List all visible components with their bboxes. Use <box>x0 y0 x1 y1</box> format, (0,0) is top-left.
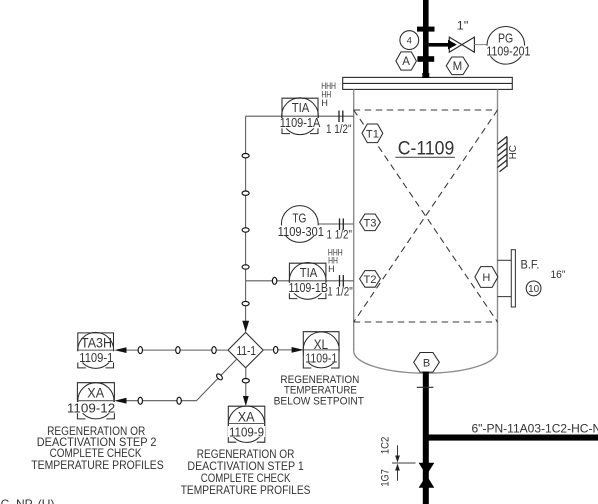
hexagon M <box>446 57 468 75</box>
valve PG (gate valve outline) <box>449 37 474 52</box>
alarm labels HHH HH H (1A) <box>321 81 336 108</box>
svg-text:1109-9: 1109-9 <box>229 424 264 439</box>
spec break dimension <box>392 445 416 480</box>
svg-text:XA: XA <box>238 410 255 425</box>
top pipe (thick) <box>423 0 429 78</box>
annunciator bubble TA3H 1109-1 <box>78 333 114 368</box>
instrument bubble TIA 1109-1A (square+circle) <box>282 98 318 133</box>
signal line diamond to XL <box>263 349 292 351</box>
svg-text:T3: T3 <box>364 217 377 229</box>
svg-text:TEMPERATURE PROFILES: TEMPERATURE PROFILES <box>31 460 164 472</box>
spec tick on bottom pipe <box>417 386 434 388</box>
svg-text:REGENERATION OR: REGENERATION OR <box>197 449 295 461</box>
flow arrow into valve <box>448 40 457 50</box>
svg-text:T1: T1 <box>366 128 379 140</box>
instrument bubble TG 1109-301 <box>281 206 318 243</box>
signal markers on vertical trunk <box>242 154 277 306</box>
HC insulation hatch <box>498 136 508 171</box>
svg-text:COMPLETE CHECK: COMPLETE CHECK <box>201 473 291 485</box>
alarm labels HHH HH H (1B) <box>328 247 343 274</box>
marker on TIA-1B branch <box>272 277 276 284</box>
svg-text:PG: PG <box>498 31 513 46</box>
signal line diamond diagonal to XA 1109-12 <box>126 359 237 401</box>
manway nozzle lines (H) <box>498 260 512 296</box>
annunciator bubble XA 1109-9 <box>228 406 264 442</box>
svg-text:TIA: TIA <box>292 100 310 115</box>
nozzle hexagon T1 <box>362 124 383 143</box>
svg-text:6"-PN-11A03-1C2-HC-NI: 6"-PN-11A03-1C2-HC-NI <box>472 421 598 435</box>
note text step 2 <box>31 426 164 472</box>
svg-text:1C2: 1C2 <box>380 437 392 455</box>
svg-text:H: H <box>328 264 335 274</box>
svg-text:1 1/2": 1 1/2" <box>327 286 353 298</box>
svg-text:10: 10 <box>528 284 539 295</box>
svg-text:COMPLETE CHECK: COMPLETE CHECK <box>50 448 142 460</box>
svg-text:TA3H: TA3H <box>81 336 112 351</box>
nozzle hexagon B <box>414 353 440 373</box>
note text below XL <box>274 374 365 408</box>
note circle 4 <box>400 31 419 50</box>
svg-text:BELOW SETPOINT: BELOW SETPOINT <box>274 396 365 408</box>
svg-text:1 1/2": 1 1/2" <box>326 124 352 136</box>
annunciator bubble XL 1109-1 <box>303 332 339 368</box>
svg-text:4: 4 <box>407 36 412 47</box>
svg-text:1": 1" <box>457 19 469 33</box>
blind flange rect <box>511 250 515 307</box>
interlock diamond 11-1 <box>228 332 263 367</box>
bottom gate valve (closed, filled) <box>419 463 435 476</box>
svg-text:1109-301: 1109-301 <box>278 225 324 239</box>
nozzle hexagon T2 <box>360 271 381 288</box>
svg-text:1 1/2": 1 1/2" <box>327 230 353 242</box>
vessel internal diagonal dashed X <box>354 110 498 322</box>
svg-text:HC: HC <box>508 145 519 159</box>
svg-text:1109-1: 1109-1 <box>79 350 113 365</box>
nozzle line to TIA-1109-1B <box>246 280 354 282</box>
svg-text:H: H <box>482 272 490 284</box>
svg-text:HC, NP, (U): HC, NP, (U) <box>0 497 54 504</box>
vessel internal bed bottom dashed line <box>354 321 498 323</box>
svg-text:B.F.: B.F. <box>521 259 540 271</box>
vessel C-1109 top flange <box>343 77 513 89</box>
svg-text:1109-1A: 1109-1A <box>280 116 321 130</box>
svg-text:DEACTIVATION STEP 1: DEACTIVATION STEP 1 <box>187 461 303 473</box>
pipe stub at vessel flange <box>422 73 429 78</box>
flange bar upper <box>417 27 435 32</box>
instrument bubble TIA 1109-1B (square+circle) <box>289 263 326 298</box>
svg-text:B: B <box>423 357 430 369</box>
svg-text:1G7: 1G7 <box>380 469 392 487</box>
svg-text:1109-201: 1109-201 <box>486 45 530 59</box>
capillary flange pair T2 <box>340 275 344 287</box>
capillary flange pair T1 <box>339 111 343 123</box>
signal line diamond down to XA 1109-9 <box>245 368 247 397</box>
instrument bubble PG 1109-201 <box>487 27 525 65</box>
svg-text:T2: T2 <box>364 274 377 286</box>
svg-text:A: A <box>402 56 410 68</box>
svg-text:1109-1B: 1109-1B <box>288 281 328 295</box>
svg-text:TG: TG <box>292 210 306 225</box>
nozzle hexagon T3 <box>360 214 381 231</box>
bottom tee header (thick) <box>426 435 598 441</box>
vessel internal bed top dashed line <box>354 110 498 322</box>
nozzle line to TIA-1109-1A <box>246 115 354 117</box>
svg-text:TIA: TIA <box>300 265 318 280</box>
hexagon A <box>396 52 417 70</box>
note text step 1 <box>181 449 311 497</box>
nozzle line to TG-1109-301 <box>318 223 354 225</box>
nozzle hexagon H <box>475 267 498 288</box>
signal line diamond to TAH <box>126 349 228 351</box>
capillary flange pair T3 <box>340 218 344 230</box>
arrow into interlock diamond <box>242 321 249 332</box>
tee to PG valve (thick) <box>429 43 449 47</box>
svg-text:TEMPERATURE PROFILES: TEMPERATURE PROFILES <box>181 485 311 497</box>
svg-text:11-1: 11-1 <box>237 344 257 358</box>
signal line valve to PG <box>474 44 487 46</box>
vessel bottom head <box>354 351 498 373</box>
vessel shell walls <box>354 89 498 373</box>
svg-text:1109-12: 1109-12 <box>67 400 115 415</box>
svg-text:16": 16" <box>551 269 566 281</box>
svg-text:XA: XA <box>87 385 104 400</box>
flange bar lower <box>417 56 434 62</box>
note circle 10 <box>526 281 541 296</box>
svg-text:M: M <box>453 61 463 73</box>
vessel tag C-1109 <box>395 139 455 160</box>
svg-text:H: H <box>321 98 328 108</box>
signal trunk vertical line <box>245 116 247 331</box>
annunciator bubble XA 1109-12 <box>77 383 114 419</box>
bottom pipe from B (thick) <box>423 372 429 504</box>
svg-text:REGENERATION OR: REGENERATION OR <box>47 426 145 438</box>
svg-text:1109-1: 1109-1 <box>305 350 337 365</box>
svg-text:C-1109: C-1109 <box>398 139 455 160</box>
